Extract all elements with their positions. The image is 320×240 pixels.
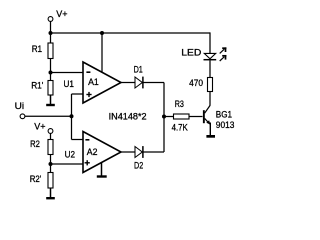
wire 470 to collector <box>209 92 211 106</box>
svg-text:R1': R1' <box>31 81 43 91</box>
wire A2 output <box>121 151 135 153</box>
wire A2 ground stem <box>101 162 103 176</box>
op-amp A1 minus sign <box>86 71 90 73</box>
svg-text:470: 470 <box>189 78 203 88</box>
op-amp A2 plus sign <box>85 160 90 165</box>
svg-text:A2: A2 <box>87 147 98 157</box>
svg-text:R2': R2' <box>30 174 42 184</box>
junction node R2 divider <box>49 162 53 166</box>
base bar <box>203 110 205 123</box>
svg-text:Ui: Ui <box>15 101 25 111</box>
wire V+ to R2 <box>50 133 52 139</box>
wire divider junction to A1 minus input <box>51 72 84 74</box>
ground below R1' <box>46 104 55 106</box>
collector lead <box>205 106 210 114</box>
emitter lead <box>205 118 210 124</box>
wire emitter to ground <box>209 123 211 136</box>
svg-text:U1: U1 <box>64 79 74 89</box>
op-amp A2 minus sign <box>85 139 89 141</box>
junction node R1 divider <box>49 71 53 75</box>
resistor 470 <box>208 78 213 92</box>
ground below R2' <box>46 197 55 199</box>
wire D2 cathode to corner <box>144 151 165 153</box>
wire to A1 plus input <box>72 93 84 95</box>
wire Ui to junction <box>25 115 72 117</box>
wire junction to R1 <box>50 33 52 43</box>
wire divider junction to A2 plus input <box>51 163 84 165</box>
junction node V+ rail left <box>49 31 53 35</box>
transistor BG1 <box>203 106 211 136</box>
wire top rail <box>51 32 211 34</box>
svg-text:R1: R1 <box>32 44 42 54</box>
op-amp A1 plus sign <box>86 92 91 97</box>
wire junction to R3 <box>164 116 174 118</box>
LED arrow 1 <box>220 47 227 53</box>
wire vertical D1 D2 bus <box>163 83 165 153</box>
wire A1 output <box>121 82 135 84</box>
terminal V+ top <box>48 17 53 22</box>
wire to A2 minus input <box>72 139 84 141</box>
diode D2 <box>135 146 143 158</box>
LED diode symbol <box>204 53 217 59</box>
resistor R2' <box>48 173 53 189</box>
wire riser A1 plus to A2 minus <box>71 94 73 140</box>
wire R2 to R2' <box>50 155 52 173</box>
wire supply drop to A1 <box>101 33 103 73</box>
ground below transistor emitter <box>206 135 215 138</box>
svg-text:U2: U2 <box>65 149 75 159</box>
wire V+ to junction <box>50 21 52 33</box>
junction node Ui <box>70 114 74 118</box>
op-amp U1 A1 <box>83 62 121 103</box>
svg-text:4.7K: 4.7K <box>172 122 188 132</box>
resistor R3 <box>174 114 190 119</box>
svg-text:V+: V+ <box>56 9 67 19</box>
svg-text:R3: R3 <box>175 99 184 109</box>
LED arrow 2 <box>220 55 227 61</box>
wire R1 to R1' <box>50 59 52 81</box>
diode D1 <box>135 77 143 89</box>
emitter arrowhead <box>206 120 210 124</box>
svg-text:A1: A1 <box>88 77 99 87</box>
resistor R2 <box>48 140 53 155</box>
wire D1 cathode to corner <box>144 82 165 84</box>
terminal V+ bottom <box>48 129 53 134</box>
svg-text:D1: D1 <box>134 65 143 75</box>
wire R3 to transistor base <box>189 116 203 118</box>
op-amp U2 A2 <box>83 132 121 173</box>
svg-text:LED: LED <box>181 47 202 57</box>
ground below A2 <box>97 175 107 177</box>
resistor R1' <box>48 81 53 96</box>
wire R2' to ground <box>50 188 52 198</box>
resistor R1 <box>48 43 53 59</box>
svg-text:IN4148*2: IN4148*2 <box>109 112 147 122</box>
svg-text:9013: 9013 <box>216 120 235 130</box>
junction node supply drop <box>100 31 104 35</box>
wire LED cathode to resistor 470 <box>209 60 211 77</box>
terminal Ui <box>20 114 25 119</box>
svg-text:D2: D2 <box>134 161 143 171</box>
svg-text:BG1: BG1 <box>216 110 232 120</box>
wire R1' to ground <box>50 95 52 105</box>
junction node diode bus R3 <box>162 115 166 119</box>
svg-text:V+: V+ <box>34 121 45 131</box>
svg-text:R2: R2 <box>30 139 40 149</box>
wire rail corner down to LED <box>209 32 211 53</box>
